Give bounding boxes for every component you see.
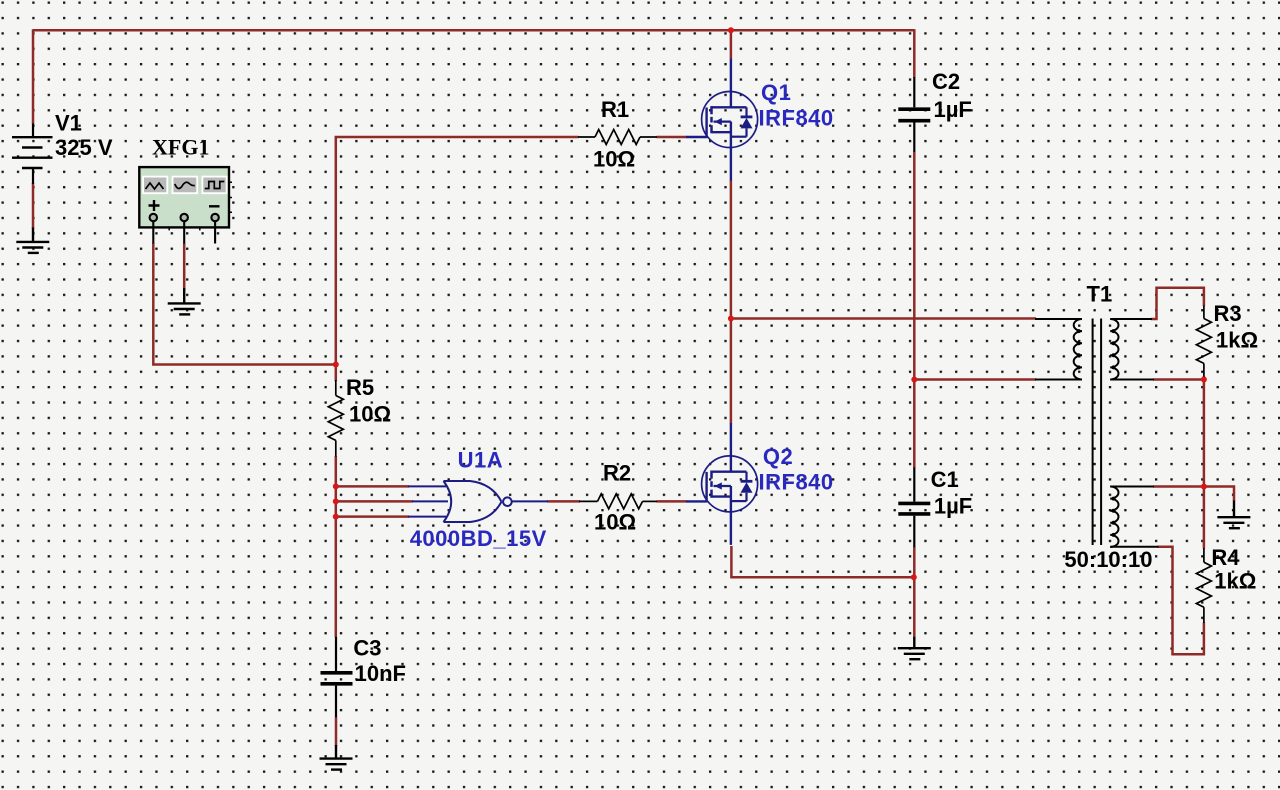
T1 secondary top leads <box>1110 318 1152 320</box>
junction NOR input A <box>333 483 339 489</box>
svg-text:325 V: 325 V <box>55 135 113 160</box>
wire R1 to Q1 gate red segment <box>657 136 687 139</box>
svg-text:XFG1: XFG1 <box>152 135 209 160</box>
ground below C3 <box>320 745 353 770</box>
U1A body <box>444 481 452 522</box>
svg-text:Q1: Q1 <box>761 80 791 105</box>
junction R4 top <box>1201 484 1207 490</box>
wire V1 top lead red <box>32 29 35 124</box>
XFG1 terminal common <box>181 214 188 221</box>
wire R5 bottom to NOR input junctions and down to C3 <box>335 456 338 637</box>
wire Q1 drain red segment <box>730 30 733 59</box>
wire Q1 source to Q2 drain red segment <box>730 180 733 424</box>
battery V1 <box>12 124 53 185</box>
svg-text:C2: C2 <box>932 69 960 94</box>
resistor R3 <box>1196 306 1211 377</box>
wire junction to R5 top <box>335 365 338 382</box>
svg-text:10Ω: 10Ω <box>593 147 635 172</box>
wire R3 bottom to junction <box>1203 376 1206 380</box>
junction half-bridge midpoint <box>728 316 734 322</box>
XFG1 triangle wave button <box>143 177 167 194</box>
svg-text:4000BD_15V: 4000BD_15V <box>410 526 547 551</box>
wire C2 top red <box>913 29 916 77</box>
XFG1 terminal minus <box>211 214 218 221</box>
svg-text:R4: R4 <box>1211 545 1240 570</box>
T1 primary winding <box>1074 319 1082 380</box>
wire R5 column top: from R1 rail corner down to junction <box>335 137 338 365</box>
function generator XFG1 <box>139 167 232 243</box>
junction C1 bottom Q2 source <box>911 574 917 580</box>
wire XFG1 middle terminal to ground <box>183 243 186 289</box>
wire C1 bottom to ground junction <box>913 547 916 638</box>
svg-text:V1: V1 <box>55 111 82 136</box>
T1 primary top lead <box>1035 318 1082 320</box>
wire junction to right ground <box>1203 487 1234 502</box>
resistor R1 <box>578 130 657 145</box>
svg-text:U1A: U1A <box>458 448 504 473</box>
wire top rail V1 to C2 column <box>33 29 914 32</box>
svg-text:C3: C3 <box>353 636 381 661</box>
wire secondary top bottom lead to R3 junction <box>1153 378 1204 381</box>
wire NOR input A <box>336 485 409 488</box>
XFG1 plus sign <box>149 200 160 211</box>
svg-text:1kΩ: 1kΩ <box>1214 569 1256 594</box>
U1A output bubble <box>503 497 512 506</box>
U1A output lead <box>512 500 548 502</box>
wire XFG1 plus terminal down and right to R5 node <box>153 243 335 365</box>
junction R5 top node <box>333 362 339 368</box>
junction R3 bottom <box>1201 377 1207 383</box>
svg-text:IRF840: IRF840 <box>759 470 834 495</box>
capacitor C3 <box>321 637 353 717</box>
svg-text:R3: R3 <box>1214 301 1242 326</box>
wire NOR output red segment <box>547 500 580 503</box>
XFG1 square wave button <box>202 177 226 194</box>
wire NOR input C <box>336 515 409 518</box>
wire NOR input B <box>336 500 413 503</box>
ground below XFG1 <box>168 288 201 314</box>
junction NOR input B <box>333 498 339 504</box>
resistor R2 <box>579 494 657 509</box>
NOR gate U1A <box>408 481 548 522</box>
svg-text:C1: C1 <box>931 467 959 492</box>
svg-text:1kΩ: 1kΩ <box>1216 328 1258 353</box>
T1 core lines <box>1092 319 1094 546</box>
wire C3 bottom to ground <box>335 717 338 746</box>
svg-text:50:10:10: 50:10:10 <box>1064 547 1152 572</box>
wire R4 bottom loop to secondary bottom lead <box>1158 547 1204 655</box>
junction C1 C2 midpoint <box>911 377 917 383</box>
MOSFET Q2 <box>686 423 758 545</box>
svg-text:10Ω: 10Ω <box>349 402 391 427</box>
svg-text:R5: R5 <box>346 375 374 400</box>
junction NOR input C <box>333 514 339 520</box>
svg-text:T1: T1 <box>1087 282 1113 307</box>
transformer T1 <box>1035 319 1159 548</box>
XFG1 minus sign <box>209 205 220 207</box>
wire R2 to Q2 gate red segment <box>657 500 687 503</box>
junction top rail Q1 drain <box>728 27 734 33</box>
wire junction down to R4 <box>1203 487 1206 549</box>
T1 secondary top winding <box>1110 319 1118 380</box>
XFG1 terminal plus <box>150 214 157 221</box>
svg-text:IRF840: IRF840 <box>759 106 834 131</box>
wire secondary bottom top lead to junction <box>1153 485 1204 488</box>
XFG1 sine wave button <box>173 177 198 194</box>
wire C2 bottom to C1 top <box>913 152 916 468</box>
T1 secondary bottom leads <box>1110 486 1154 488</box>
ground below V1 <box>16 228 49 253</box>
capacitor C2 <box>898 77 930 152</box>
svg-text:Q2: Q2 <box>763 444 793 469</box>
T1 primary bottom lead <box>1035 379 1082 381</box>
svg-text:10Ω: 10Ω <box>594 510 636 535</box>
wire R3 junction down to R4 junction <box>1203 380 1206 487</box>
MOSFET Q1 <box>686 59 758 181</box>
XFG1 pin leads <box>153 221 215 243</box>
resistor R4 <box>1196 548 1211 623</box>
wire Q2 source to C1 column <box>731 546 915 577</box>
svg-text:1µF: 1µF <box>934 494 972 519</box>
svg-text:R2: R2 <box>603 461 631 486</box>
wire R1 rail from R5 column to R1 <box>335 136 579 139</box>
wire secondary top to R3 top <box>1151 288 1204 319</box>
wire V1 bottom red <box>32 183 35 229</box>
wire C mid junction to transformer primary bottom <box>914 378 1036 381</box>
wire half-bridge mid to transformer primary top <box>731 317 1036 320</box>
resistor R5 <box>328 380 343 457</box>
svg-text:1µF: 1µF <box>934 97 972 122</box>
svg-text:10nF: 10nF <box>355 661 406 686</box>
ground below C1 <box>898 637 931 659</box>
capacitor C1 <box>898 468 930 548</box>
XFG1 edge ticks <box>169 182 232 230</box>
ground right of T1 <box>1217 501 1250 529</box>
T1 secondary bottom winding <box>1110 487 1118 548</box>
svg-text:R1: R1 <box>601 97 629 122</box>
U1A input leads <box>408 485 446 487</box>
